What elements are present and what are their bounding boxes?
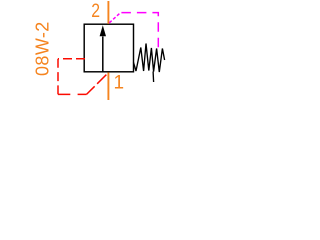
pilot line red dashed: left vertical run	[57, 59, 59, 95]
port 2 line	[107, 1, 109, 24]
spring (zigzag)	[134, 44, 165, 73]
svg-text:2: 2	[91, 1, 100, 22]
svg-text:08W-2: 08W-2	[32, 21, 52, 76]
pilot line red dashed: top horizontal run	[58, 58, 85, 60]
valve envelope (body)	[84, 24, 133, 72]
pilot line red dashed: bottom horizontal run	[58, 93, 87, 95]
flow arrow head	[100, 25, 106, 36]
drain line magenta dashed: diagonal from port 2	[109, 13, 120, 23]
spring tail stroke	[152, 72, 155, 83]
flow arrow shaft	[102, 37, 104, 72]
pilot line red dashed: diagonal run to port 1	[87, 74, 108, 95]
drain line magenta dashed: horizontal and down right side	[121, 13, 159, 49]
port 1 line	[107, 72, 109, 100]
svg-text:1: 1	[114, 72, 125, 93]
